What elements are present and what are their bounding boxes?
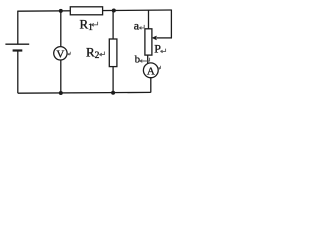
svg-text:A: A [147, 65, 155, 77]
ammeter A circle [143, 63, 158, 78]
wire wiper arrow horizontal [157, 37, 172, 39]
arrowhead of wiper P [152, 36, 157, 41]
resistor R2 box [109, 39, 117, 67]
label b return mark [140, 58, 150, 63]
wire top horizontal [18, 10, 172, 11]
label P return mark [160, 49, 165, 53]
battery cell long plate [5, 43, 29, 45]
resistor R1 box [70, 7, 102, 15]
rheostat P box [145, 29, 152, 55]
wire R2 branch lower [112, 67, 114, 93]
wire voltmeter branch upper [60, 11, 62, 47]
label a return mark [139, 25, 144, 29]
wire bottom horizontal [18, 91, 151, 94]
svg-text:b: b [135, 55, 140, 66]
wire R2 branch upper [112, 11, 114, 40]
node dot top R2 junction [112, 9, 116, 13]
node dot bottom voltmeter junction [59, 91, 63, 95]
svg-text:a: a [134, 18, 140, 32]
voltmeter return mark [68, 52, 71, 55]
node dot bottom R2 junction [111, 91, 115, 95]
voltmeter V circle [54, 47, 67, 60]
wire rheostat b to ammeter [147, 55, 149, 64]
wire rheostat terminal a drop [148, 10, 150, 29]
battery cell short plate [13, 49, 23, 51]
node dot top voltmeter junction [59, 9, 63, 13]
wire ammeter to bottom [150, 78, 152, 93]
wire battery left vertical top [17, 11, 19, 45]
ammeter return mark [158, 66, 161, 70]
label R1 return mark [91, 22, 97, 26]
label R2 return mark [99, 52, 104, 57]
svg-text:V: V [56, 48, 64, 60]
wire voltmeter branch lower [60, 60, 62, 93]
wire right vertical to wiper [170, 10, 172, 38]
wire battery left vertical bottom [17, 51, 19, 94]
svg-text:P: P [154, 42, 161, 56]
